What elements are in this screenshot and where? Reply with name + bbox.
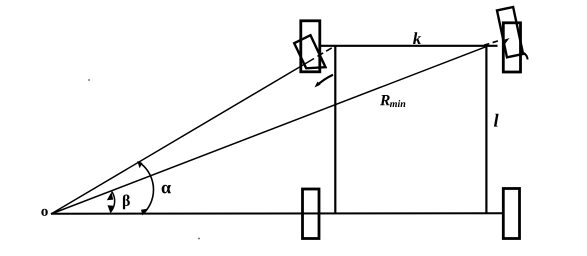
front right wheel straight position [503,23,520,72]
steering angle tick at front left wheel [317,75,333,86]
arrowhead at end of dashed line [502,38,510,45]
front right wheel steered position [497,7,523,57]
angle arc alpha [139,162,154,213]
label l [494,114,499,127]
wire: baseline from o through rear axle [51,212,504,215]
label o [41,209,47,216]
paper speck [198,238,200,240]
vehicle body left edge [334,46,336,214]
wire: dashed continuation beyond top-right corner [484,41,498,45]
label R_min [380,95,390,105]
label beta [123,195,130,210]
front left wheel steered position [294,35,325,68]
label alpha [162,185,171,194]
label k [413,32,421,44]
vehicle body right edge [485,46,487,214]
rear right wheel [503,189,519,239]
wire: dashed continuation to top-left corner [318,46,336,57]
front axle line (k) [321,45,498,47]
rear left wheel [303,189,320,239]
wire: line o to outer kingpin (R_min line) [51,47,486,214]
wire: line o to inner kingpin (alpha line), solid part [51,59,314,215]
front left wheel straight position [301,21,320,72]
angle arc beta [110,192,114,213]
paper speck [88,79,90,81]
steering angle tick at front right wheel [524,53,528,60]
